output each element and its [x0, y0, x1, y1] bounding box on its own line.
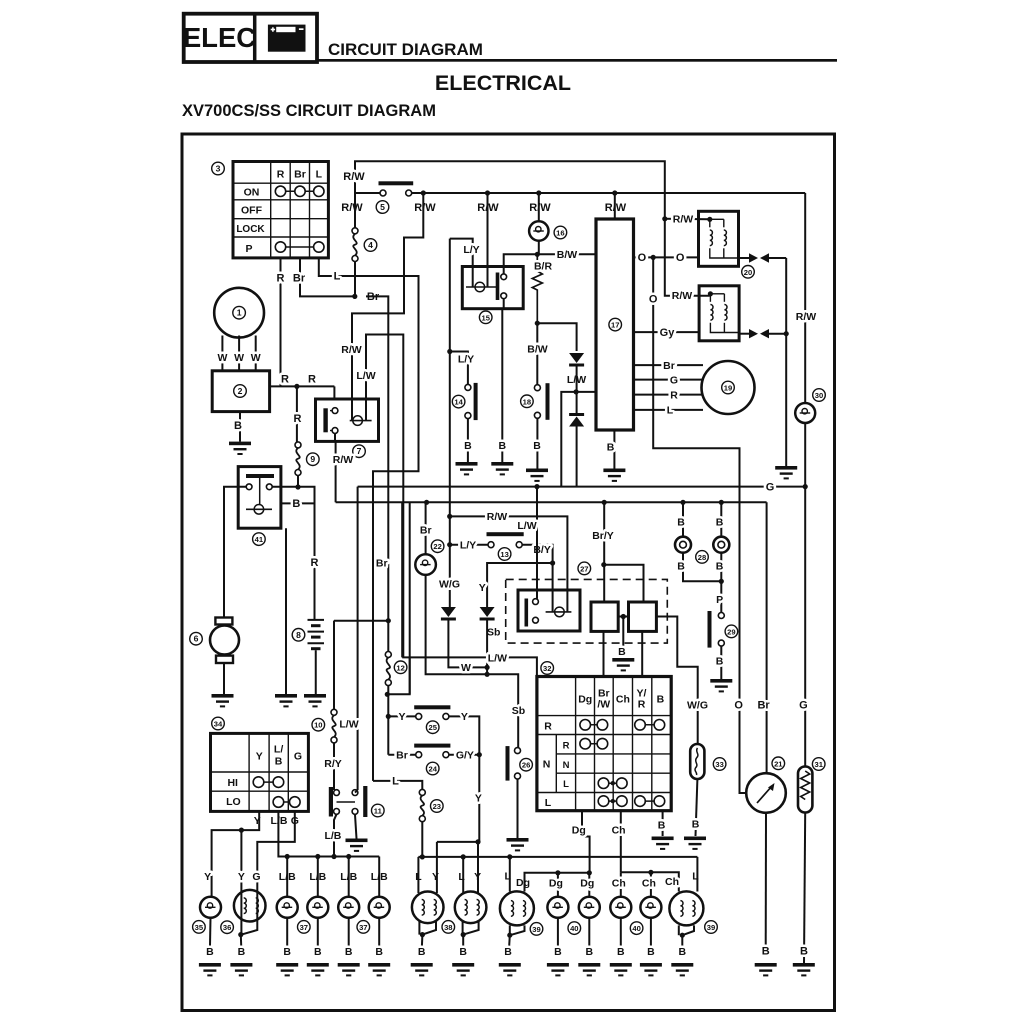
svg-text:19: 19 — [724, 384, 732, 393]
label 5 — [376, 201, 389, 214]
connector32 contacts row L2 — [598, 796, 665, 807]
connector32 contacts row R2 — [580, 738, 608, 749]
label 9 — [307, 453, 320, 466]
svg-text:26: 26 — [522, 761, 530, 770]
wire Y to diode2 — [487, 563, 552, 607]
label 36 — [221, 921, 234, 934]
meter 21 — [746, 773, 786, 813]
ground switch29 — [710, 679, 732, 692]
horn 22 — [415, 554, 436, 575]
svg-text:R: R — [670, 389, 678, 401]
lamp 39 rear turn right — [696, 857, 698, 892]
label 11 — [372, 804, 385, 817]
wire B pair left — [682, 502, 684, 536]
wire R down to fuse9 — [296, 386, 298, 442]
svg-text:B: B — [607, 441, 615, 453]
svg-text:Br: Br — [376, 558, 388, 570]
junction bus0 relay27 feed — [534, 484, 539, 489]
junction L/Y switch14 — [447, 349, 452, 354]
label 17 — [609, 318, 622, 331]
diode 2 Y — [480, 607, 495, 621]
junction R branch — [294, 384, 299, 389]
label 18 — [521, 395, 534, 408]
wire relay41 right contact to R and battery — [272, 487, 314, 620]
label 6 — [190, 632, 203, 645]
ground lamp36 — [230, 963, 252, 976]
wire horn22 down to Sb line — [426, 575, 488, 674]
wire W line — [448, 621, 487, 668]
svg-text:R: R — [311, 557, 319, 569]
starter circuit relay 7 — [316, 399, 379, 441]
svg-text:B: B — [533, 440, 541, 452]
svg-text:L/Y: L/Y — [460, 539, 476, 551]
wire Br/Y vertical — [603, 502, 605, 602]
label 22 — [431, 540, 444, 553]
ground lamp38a — [411, 963, 433, 976]
wire R/W to coil2 pin — [665, 219, 710, 296]
wire L/W from bus0 to switch11 — [357, 487, 359, 790]
svg-text:Dg: Dg — [549, 877, 563, 889]
svg-text:R: R — [277, 169, 285, 181]
wire mid vertical fuse12 jog — [409, 502, 411, 694]
svg-text:B: B — [716, 561, 724, 573]
ground connector32 — [652, 837, 674, 850]
svg-text:L/W: L/W — [488, 653, 507, 665]
fuse 5 main fuse — [379, 181, 414, 196]
label 13 — [498, 548, 511, 561]
junction Sb — [485, 672, 490, 677]
svg-text:B: B — [292, 498, 300, 510]
wire Ch output — [620, 811, 622, 873]
svg-text:B: B — [464, 440, 472, 452]
ground relay41 — [275, 694, 297, 707]
svg-text:R: R — [563, 741, 570, 752]
svg-text:23: 23 — [433, 802, 441, 811]
svg-text:B: B — [275, 756, 283, 768]
svg-text:10: 10 — [314, 721, 322, 730]
svg-text:R/W: R/W — [414, 202, 436, 214]
fuse 4 signal fuse — [354, 193, 356, 228]
ground lamp38b — [452, 963, 474, 976]
svg-text:22: 22 — [433, 542, 441, 551]
wire diode4 to bus0 — [576, 427, 578, 487]
svg-text:28: 28 — [698, 553, 706, 562]
junction L/B lamps — [285, 854, 290, 859]
label 14 — [452, 395, 465, 408]
lamp 38 front turn left — [417, 857, 419, 893]
svg-text:L: L — [563, 779, 569, 790]
ground lamp33 — [684, 837, 706, 850]
wire L/W relay7 loop — [366, 335, 403, 658]
svg-text:41: 41 — [255, 535, 264, 544]
svg-text:B/W: B/W — [527, 344, 548, 356]
wire G feed lamp36 — [257, 811, 295, 890]
svg-text:CIRCUIT DIAGRAM: CIRCUIT DIAGRAM — [328, 40, 483, 59]
wire Y to lamp36 — [240, 830, 242, 890]
switch 18 neutral — [534, 383, 549, 420]
svg-text:Gy: Gy — [660, 327, 676, 339]
wire L/W into IC17 — [576, 391, 596, 393]
svg-text:Br: Br — [663, 360, 675, 372]
wire Gy line — [634, 331, 700, 333]
svg-text:L: L — [392, 776, 399, 788]
svg-text:B: B — [617, 946, 625, 958]
svg-text:3: 3 — [216, 164, 221, 174]
label 41 — [253, 533, 266, 546]
flasher square B — [629, 602, 657, 631]
wire horn22 feed — [425, 502, 427, 554]
wire switch18 to ground — [536, 418, 538, 468]
ignition switch 3 table — [233, 162, 328, 258]
ignitor unit 17 — [596, 219, 634, 430]
svg-text:R/W: R/W — [341, 202, 363, 214]
flasher square A — [591, 602, 618, 631]
ignition coil lower — [699, 286, 739, 341]
svg-text:Y: Y — [461, 711, 468, 723]
label 31 — [812, 758, 825, 771]
wire R/W IC17 — [614, 193, 616, 219]
svg-text:B/R: B/R — [534, 261, 553, 273]
svg-text:B: B — [206, 946, 214, 958]
ignition coil 20 upper — [699, 211, 739, 266]
svg-text:Ch: Ch — [612, 825, 626, 837]
svg-text:4: 4 — [368, 240, 373, 250]
junction bus1 B right — [719, 500, 724, 505]
ground lamp39b — [671, 963, 693, 976]
junction B pair — [719, 579, 724, 584]
wire bus R/W lower horizontal — [336, 501, 767, 503]
wire W/G from square B — [656, 617, 697, 745]
horn 30 — [795, 403, 815, 423]
wire fuse12 down — [387, 686, 389, 755]
svg-text:24: 24 — [428, 765, 437, 774]
svg-text:11: 11 — [374, 807, 383, 816]
svg-text:Br: Br — [420, 525, 432, 537]
junction L/W — [574, 389, 579, 394]
svg-text:R/W: R/W — [673, 213, 694, 225]
wire spark plug ground line — [785, 258, 787, 466]
svg-text:7: 7 — [357, 446, 362, 456]
wire top loop R/W — [355, 161, 665, 219]
junction G bus — [803, 484, 808, 489]
spark gap upper — [739, 253, 787, 262]
svg-text:B: B — [504, 946, 512, 958]
ground motor — [212, 694, 234, 707]
svg-text:8: 8 — [296, 630, 301, 640]
lamps 37 group — [286, 857, 288, 897]
junction L/Y 13 line — [447, 542, 452, 547]
ground meter21 — [755, 963, 777, 976]
wire Y switch25 out — [449, 716, 479, 842]
svg-text:R/Y: R/Y — [324, 758, 342, 770]
svg-text:L/W: L/W — [517, 520, 536, 532]
svg-text:Y: Y — [398, 711, 405, 723]
wire L line to fuse23 — [392, 781, 422, 790]
svg-text:Br/Y: Br/Y — [592, 530, 614, 542]
wire B IC17 to ground — [613, 430, 615, 469]
switch 11 dimmer relay — [329, 786, 368, 817]
ground IC17 — [603, 469, 625, 482]
svg-text:B: B — [657, 694, 665, 706]
label 3 — [212, 162, 225, 175]
label 21 — [772, 757, 785, 770]
svg-text:B: B — [314, 946, 322, 958]
svg-text:B: B — [418, 946, 426, 958]
svg-text:B: B — [554, 946, 562, 958]
svg-text:OFF: OFF — [241, 205, 263, 217]
ground spark plugs — [775, 466, 797, 479]
ground battery — [304, 694, 326, 707]
svg-text:39: 39 — [532, 925, 540, 934]
label 16 — [554, 226, 567, 239]
svg-text:R/W: R/W — [672, 290, 693, 302]
svg-text:P: P — [245, 243, 252, 255]
svg-text:ELECTRICAL: ELECTRICAL — [435, 71, 571, 95]
svg-text:Sb: Sb — [487, 626, 500, 638]
svg-text:R: R — [277, 273, 285, 285]
svg-text:B: B — [716, 517, 724, 529]
junction bus1 B left — [680, 500, 685, 505]
wire O column down — [653, 257, 747, 793]
ground rectifier — [229, 442, 251, 455]
wire lamp36 B — [240, 935, 243, 951]
svg-text:L: L — [667, 405, 674, 417]
svg-text:39: 39 — [707, 923, 715, 932]
wire battery feed line — [334, 620, 388, 622]
wire L/Y to switch13 — [450, 544, 488, 546]
junction R/W relay15 — [485, 190, 490, 195]
label 28 — [696, 551, 709, 564]
lamps 40 group — [557, 873, 559, 897]
svg-text:B: B — [375, 946, 383, 958]
svg-text:L/W: L/W — [339, 719, 358, 731]
spark gap lower — [739, 329, 786, 338]
svg-text:R/W: R/W — [796, 311, 817, 323]
svg-text:G: G — [294, 750, 302, 762]
wire Y feed lamps — [212, 811, 260, 876]
label 19 — [722, 381, 735, 394]
ELEC tab box — [183, 14, 317, 62]
wire R into relay7 — [333, 386, 335, 399]
wire R/W right vertical — [804, 193, 806, 403]
switch 29 brake — [708, 611, 725, 648]
label 30 — [813, 389, 826, 402]
switch 14 sidestand — [450, 352, 468, 385]
svg-text:LOCK: LOCK — [236, 224, 265, 235]
svg-text:Sb: Sb — [512, 705, 525, 717]
svg-text:B: B — [618, 646, 626, 658]
lamp 39 rear turn left — [509, 857, 511, 892]
wire lamp16 to B/W line — [538, 241, 540, 255]
svg-text:B: B — [647, 946, 655, 958]
svg-text:W: W — [234, 352, 244, 364]
junction B/Y-Y — [550, 560, 555, 565]
svg-text:R/W: R/W — [343, 171, 365, 183]
svg-text:Br: Br — [757, 699, 770, 711]
wire switch11 right top feed — [355, 790, 358, 793]
svg-text:B: B — [238, 946, 246, 958]
starter relay 41 — [238, 467, 281, 529]
wire Y bus turn lamps — [437, 841, 479, 843]
svg-text:L/: L/ — [274, 744, 283, 756]
svg-text:18: 18 — [523, 397, 531, 406]
wire square A to connector Br/W — [603, 631, 605, 676]
svg-text:W: W — [217, 352, 227, 364]
wire L/B feed bus — [278, 811, 379, 856]
schematic border frame — [182, 134, 835, 1011]
svg-text:R: R — [281, 374, 289, 386]
wire main R/W bus — [355, 192, 380, 194]
wire resistor31 to ground — [804, 813, 805, 964]
junction bus1 BrY — [602, 500, 607, 505]
wire Dg output — [582, 811, 590, 873]
wires pickup to IC17 — [634, 364, 704, 366]
svg-text:Y: Y — [204, 871, 211, 883]
wire R/W relay7 down to bus — [334, 433, 336, 441]
svg-text:N: N — [543, 759, 551, 771]
svg-text:Dg: Dg — [578, 694, 592, 706]
ground resistor31 — [793, 963, 815, 976]
svg-text:12: 12 — [396, 663, 404, 672]
svg-text:O: O — [734, 699, 743, 711]
svg-text:25: 25 — [428, 723, 437, 732]
svg-text:Y: Y — [238, 871, 245, 883]
svg-text:15: 15 — [481, 313, 490, 322]
wire bus L/W-G horizontal — [358, 486, 806, 488]
wire between squares — [618, 616, 628, 618]
wire relay41 left contact to motor — [224, 487, 246, 618]
resistor 31 — [798, 767, 812, 813]
wire R/W jog to relay7 coil — [352, 193, 423, 421]
label 39 b — [705, 921, 718, 934]
svg-text:B: B — [658, 820, 666, 832]
fuse 12 — [385, 652, 391, 686]
junction B/W — [535, 252, 540, 257]
wire Br/Y to square B — [604, 565, 644, 602]
svg-text:38: 38 — [444, 923, 452, 932]
fuse 23 — [419, 789, 425, 821]
junction spark — [784, 331, 789, 336]
svg-text:2: 2 — [238, 386, 243, 396]
rectifier regulator 2 — [212, 371, 269, 412]
junction bus1 horn — [424, 500, 429, 505]
svg-text:R/W: R/W — [487, 511, 508, 523]
svg-text:B: B — [345, 946, 353, 958]
label 34 — [212, 717, 225, 730]
junction O — [651, 255, 656, 260]
label 26 — [520, 758, 533, 771]
svg-text:27: 27 — [580, 564, 588, 573]
svg-text:O: O — [638, 252, 647, 264]
svg-text:31: 31 — [814, 760, 823, 769]
wire relay41 coil to ground — [285, 528, 287, 694]
svg-text:35: 35 — [195, 923, 204, 932]
svg-text:Dg: Dg — [572, 825, 586, 837]
lamp 38 front turn right — [462, 857, 464, 893]
svg-text:20: 20 — [744, 268, 752, 277]
svg-text:/W: /W — [597, 699, 610, 711]
svg-text:L: L — [545, 797, 552, 809]
wire lamp36 leads — [240, 891, 242, 935]
svg-text:N: N — [563, 760, 570, 771]
svg-text:B: B — [716, 656, 724, 668]
svg-text:37: 37 — [359, 923, 367, 932]
svg-text:W/G: W/G — [687, 699, 708, 711]
wire G column down — [804, 423, 806, 767]
wire to diode3 — [537, 323, 576, 351]
label 37 a — [298, 921, 311, 934]
svg-text:29: 29 — [727, 627, 735, 636]
resistor B/R — [532, 254, 542, 323]
junction Br/Y branch — [601, 562, 606, 567]
wire Br lead from switch — [300, 258, 355, 297]
label 29 — [725, 625, 738, 638]
starter motor 6 — [210, 618, 239, 664]
dimmer switch 34 table — [211, 733, 309, 811]
label 12 — [394, 661, 407, 674]
connector32 contacts row L1 — [598, 778, 627, 789]
wire B pair left lower — [683, 553, 721, 581]
label 32 — [541, 662, 554, 675]
svg-text:Y: Y — [479, 582, 486, 594]
svg-text:13: 13 — [500, 550, 508, 559]
wire switch11 L/B out — [334, 814, 337, 856]
wire R/Y fuse10 to switch11 — [333, 743, 335, 790]
wire R lead from switch — [280, 258, 282, 387]
ground lamp39a — [499, 963, 521, 976]
lamp 36 headlight — [234, 890, 266, 922]
svg-text:G: G — [670, 374, 678, 386]
wire fuse23 to L bus — [421, 822, 423, 857]
svg-text:R/W: R/W — [605, 202, 627, 214]
junction Br-fuse4 — [352, 294, 357, 299]
svg-text:Dg: Dg — [516, 877, 530, 889]
wires W generator to rectifier — [221, 336, 223, 371]
svg-text:Ch: Ch — [616, 694, 630, 706]
label 4 — [364, 239, 377, 252]
svg-text:HI: HI — [227, 777, 238, 789]
svg-text:B/Y: B/Y — [533, 544, 551, 556]
svg-text:B: B — [586, 946, 594, 958]
fuse 9 — [295, 442, 301, 476]
svg-text:G: G — [799, 699, 808, 711]
svg-text:1: 1 — [237, 308, 242, 318]
svg-text:B: B — [234, 420, 242, 432]
wire R fuse9 to starter relay — [297, 476, 299, 488]
wire squares ground stem — [622, 617, 624, 658]
wire diode3 to junction — [576, 367, 578, 414]
wire L/W to bus0 — [561, 392, 576, 487]
battery icon — [268, 25, 306, 52]
svg-text:37: 37 — [300, 923, 308, 932]
svg-text:ON: ON — [244, 187, 260, 199]
label 27 — [578, 562, 591, 575]
svg-text:Ch: Ch — [612, 877, 626, 889]
flasher unit dashed box 27 — [506, 579, 668, 643]
wire L bus turn lamps — [418, 856, 697, 858]
wire O line to coil1 — [634, 256, 699, 258]
junction R/W lamp16 — [536, 190, 541, 195]
connector 32 table — [537, 677, 671, 811]
AC generator 1 — [214, 288, 264, 338]
label 1 — [233, 306, 246, 319]
wire B/W relay15 to IC17 — [504, 254, 596, 274]
wire Ch bus — [621, 872, 679, 891]
svg-text:G: G — [252, 871, 260, 883]
svg-text:B: B — [283, 946, 291, 958]
svg-text:L: L — [334, 271, 341, 283]
svg-text:Y: Y — [256, 750, 263, 762]
